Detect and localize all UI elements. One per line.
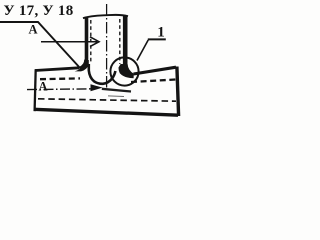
label 1 underline bbox=[148, 38, 166, 40]
weld root line inside pipe bbox=[102, 89, 131, 92]
main pipe: inner top wall dashed (right) bbox=[131, 80, 176, 83]
weld fillet right (solid) bbox=[118, 64, 133, 78]
section arrow A (bottom, filled head pointing right) bbox=[91, 84, 103, 91]
svg-text:А: А bbox=[29, 23, 38, 37]
main pipe: left end wall bbox=[35, 69, 36, 111]
branch pipe: centerline (dash-dot) bbox=[106, 4, 108, 88]
leader line of view A (horizontal then diagonal to weld) bbox=[0, 22, 81, 69]
main pipe: top edge left section bbox=[35, 68, 79, 71]
branch pipe: left inner wall (dashed) bbox=[90, 20, 92, 63]
faint secondary root line bbox=[108, 95, 124, 98]
leader to label 1 bbox=[137, 40, 148, 61]
svg-text:А: А bbox=[39, 79, 48, 93]
main pipe: bottom edge bbox=[34, 109, 178, 115]
detail circle 1 bbox=[110, 57, 138, 85]
branch pipe: right inner wall (dashed) bbox=[119, 19, 121, 64]
branch pipe: top break edge (wavy) bbox=[83, 15, 128, 18]
section arrow A (horizontal, pointing right at branch pipe) bbox=[41, 37, 99, 47]
branch pipe: left outer wall (thick) with weld flare bbox=[80, 17, 87, 69]
branch pipe: right outer wall (thick) bbox=[123, 16, 128, 70]
weld fillet left (solid) bbox=[75, 60, 89, 72]
main pipe: right end wall bbox=[177, 67, 179, 117]
svg-text:1: 1 bbox=[157, 24, 165, 40]
main pipe: top edge right section bbox=[134, 67, 177, 74]
main pipe axis (dash-dot) with label A (bottom) bbox=[27, 88, 95, 91]
branch penetration U-curve (solid) bbox=[89, 64, 116, 84]
main pipe: inner top wall dashed (left) bbox=[40, 77, 80, 80]
main pipe: inner bottom wall dashed bbox=[38, 99, 176, 101]
svg-text:У 17, У 18: У 17, У 18 bbox=[4, 3, 74, 19]
